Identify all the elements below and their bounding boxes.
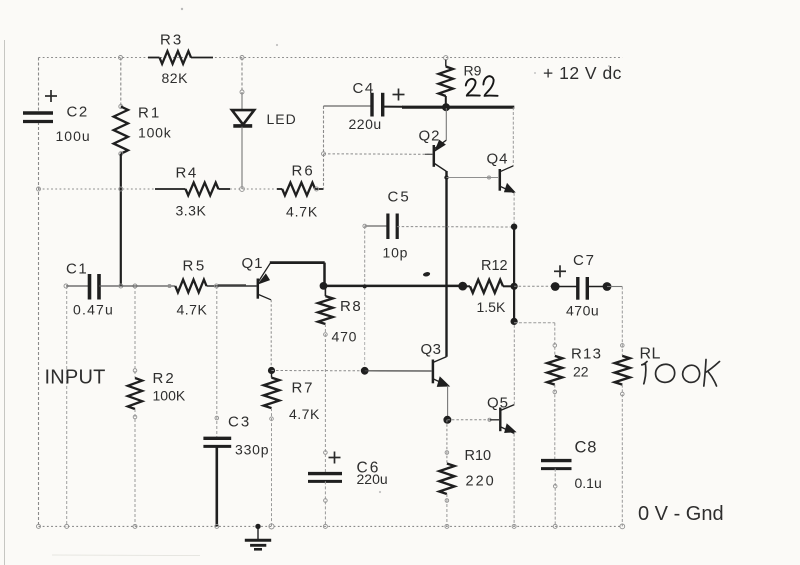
resistor R13 — [547, 356, 562, 385]
svg-text:R10: R10 — [465, 448, 492, 464]
svg-text:R9: R9 — [464, 63, 482, 79]
capacitor C8 0.1u — [541, 459, 572, 462]
scan speck — [379, 491, 381, 493]
wire: Q5 emitter down to ground rail — [513, 434, 515, 527]
wire: Q3 emitter down to R10 node — [447, 386, 449, 417]
wire: Q5 collector up (dotted) — [513, 321, 515, 404]
svg-text:C7: C7 — [573, 252, 596, 269]
resistor R4 — [155, 188, 186, 190]
capacitor C2 (electrolytic) — [23, 111, 53, 115]
svg-text:C5: C5 — [388, 189, 411, 206]
svg-text:Q4: Q4 — [487, 151, 509, 168]
node: bias rail / LED junction — [240, 187, 245, 192]
svg-text:100k: 100k — [138, 125, 172, 141]
resistor R2 — [134, 286, 136, 378]
svg-text:330p: 330p — [235, 442, 269, 458]
node: R7 top / Q3 base dot — [268, 367, 275, 374]
resistor R9 — [444, 56, 448, 60]
node: Q3 emitter / R10 / Q5 base dot — [443, 416, 451, 424]
wire: C7 right to RL column — [607, 286, 622, 288]
wire: output column (Q4 emitter to R13 tee) — [511, 224, 517, 230]
scan edge artifact line — [4, 40, 6, 565]
wire: branch to R13 column — [514, 322, 555, 324]
svg-text:R3: R3 — [160, 32, 183, 49]
wire: output dotted to C7 — [514, 285, 553, 287]
svg-text:Q2: Q2 — [419, 128, 441, 145]
resistor R1 — [120, 58, 122, 107]
wire: Q4 collector up to VCC rail — [512, 107, 514, 166]
polarity + of C2 — [45, 95, 57, 97]
svg-text:LED: LED — [267, 111, 297, 127]
transistor Q1 (PNP) — [257, 279, 260, 299]
wire: top +12V supply rail — [39, 57, 623, 59]
svg-text:Q5: Q5 — [487, 395, 509, 412]
svg-text:220u: 220u — [349, 116, 382, 132]
svg-text:0 V - Gnd: 0 V - Gnd — [638, 503, 724, 525]
transistor Q4 (NPN) — [499, 169, 502, 191]
svg-text:R4: R4 — [176, 165, 198, 182]
node: R9/Q2 emitter junction dot — [442, 103, 450, 111]
capacitor C5 10p — [365, 225, 388, 227]
wire: input line to R5 — [121, 285, 175, 287]
wire: input column down to ground rail — [66, 286, 68, 526]
node: R8 top junction dot — [320, 282, 328, 290]
svg-text:220u: 220u — [357, 471, 388, 487]
wire: R5 to Q1 base — [216, 285, 256, 287]
svg-text:100u: 100u — [56, 128, 91, 144]
svg-text:Q3: Q3 — [421, 341, 442, 358]
ground symbol — [257, 526, 259, 539]
polarity + of C7 — [554, 270, 566, 272]
svg-text:0.47u: 0.47u — [73, 302, 114, 318]
svg-text:R1: R1 — [138, 105, 161, 122]
handwritten value 100K (RL) — [641, 362, 647, 384]
polarity + of C6 — [329, 457, 341, 459]
svg-text:INPUT: INPUT — [45, 367, 106, 389]
input terminal node — [64, 284, 68, 288]
wire: Q5 base line (dotted) — [447, 419, 489, 421]
resistor R6 — [277, 188, 282, 190]
svg-text:470: 470 — [332, 329, 358, 345]
wire: C5 left column down to feedback line — [363, 224, 367, 228]
resistor RL (load) — [621, 287, 623, 356]
wire: Q4 base from Q2 collector line (dotted) — [444, 175, 448, 179]
svg-text:R5: R5 — [183, 258, 207, 275]
wire: Q2/Q3 collector thick line — [445, 171, 447, 357]
svg-text:R8: R8 — [340, 298, 362, 315]
node: Q3 base / C5 column dot — [361, 367, 369, 375]
svg-text:10p: 10p — [383, 245, 409, 261]
svg-text:Q1: Q1 — [242, 255, 264, 272]
resistor R3 — [148, 57, 160, 59]
node: Q2 base tee on C4 column — [322, 152, 326, 156]
wire: bottom 0V ground rail — [39, 525, 623, 527]
wire: R8 bottom down to C6 — [324, 324, 326, 473]
svg-text:R13: R13 — [571, 346, 602, 363]
wire: C5 right to Q4 emitter node (dotted) — [397, 226, 513, 228]
wire: R6 up to C4 column — [323, 106, 325, 189]
node: R2 column / input line — [133, 284, 137, 288]
resistor R5 — [175, 280, 206, 293]
svg-text:0.1u: 0.1u — [575, 475, 602, 491]
svg-text:+ 12 V dc: + 12 V dc — [543, 63, 622, 83]
svg-text:R7: R7 — [292, 380, 315, 397]
node: R5 right / C3 tee — [214, 284, 218, 288]
svg-text:C8: C8 — [575, 439, 598, 457]
wire: Q2 base from C4 column (dotted) — [324, 153, 432, 156]
node: bias rail / R1 column crossing — [119, 187, 123, 191]
resistor R10 — [446, 420, 448, 464]
svg-text:C2: C2 — [67, 104, 89, 121]
LED D1 — [241, 58, 243, 93]
svg-text:RL: RL — [640, 346, 661, 363]
wire: C5 column continues to Q3 base line — [364, 287, 366, 371]
scan smear — [52, 554, 200, 557]
svg-text:C4: C4 — [353, 80, 375, 97]
wire: Q1 emitter thick link to R8 node — [270, 261, 325, 264]
node: feedback / R12 left dot — [458, 282, 467, 291]
node: top rail / R1 junction — [119, 56, 123, 60]
wire: VCC thick node rail (R9 bottom) — [402, 106, 514, 109]
wire: Q3 base line — [272, 370, 365, 372]
polarity + of C4 — [393, 94, 405, 96]
node: ground tap dot — [255, 524, 260, 529]
svg-text:C3: C3 — [228, 414, 251, 431]
node: bias rail / left rail — [37, 187, 41, 191]
wire: C3 bottom thick to ground rail — [216, 446, 219, 526]
node: top rail / LED junction — [240, 56, 244, 60]
svg-text:4.7K: 4.7K — [177, 302, 208, 318]
scan speck — [608, 65, 610, 67]
svg-text:82K: 82K — [162, 70, 189, 86]
node: C5 column junction small dot — [363, 284, 367, 288]
svg-text:470u: 470u — [566, 303, 599, 319]
handwritten value 22 (R9) — [466, 79, 480, 96]
svg-text:4.7K: 4.7K — [286, 204, 318, 220]
svg-text:100K: 100K — [153, 388, 186, 404]
node: R12 right / output column dot — [510, 283, 517, 290]
svg-text:1.5K: 1.5K — [477, 299, 506, 315]
capacitor C3 330p — [216, 286, 218, 438]
wire: left vertical rail — [38, 58, 40, 113]
capacitor C4 (electrolytic 220u) — [324, 105, 373, 107]
capacitor C6 (electrolytic 220u) — [308, 472, 342, 475]
svg-text:R6: R6 — [292, 163, 315, 180]
resistor R7 — [270, 300, 272, 367]
svg-text:R2: R2 — [153, 370, 176, 387]
scan speck — [534, 72, 536, 74]
svg-text:R12: R12 — [481, 258, 508, 274]
wire: R1 bottom to input node — [120, 154, 122, 286]
svg-text:4.7K: 4.7K — [289, 406, 320, 422]
wire: bias rail (R4/R6 row) — [39, 188, 156, 190]
svg-text:C1: C1 — [66, 261, 88, 278]
capacitor C7 (electrolytic 470u) — [551, 282, 560, 291]
resistor R8 — [324, 286, 326, 296]
transistor Q2 (PNP) — [433, 145, 436, 167]
scan speck — [276, 44, 278, 46]
svg-text:22: 22 — [573, 364, 589, 380]
scan speck — [181, 8, 183, 10]
svg-text:3.3K: 3.3K — [176, 203, 207, 219]
wire: Q4 emitter down to output column — [513, 193, 515, 227]
transistor Q3 (NPN) — [432, 360, 435, 384]
transistor Q5 (NPN) — [499, 408, 501, 432]
svg-text:220: 220 — [466, 474, 496, 490]
ink mark artifact — [423, 273, 429, 276]
resistor R12 — [463, 285, 470, 287]
node: ground rail junctions — [37, 524, 41, 528]
wire: feedback line (Q1 emitter to R12) — [323, 285, 463, 288]
capacitor C1 0.47u — [66, 285, 90, 287]
node: R13 branch dot — [510, 318, 517, 325]
node: R1 column / input line — [119, 284, 123, 288]
